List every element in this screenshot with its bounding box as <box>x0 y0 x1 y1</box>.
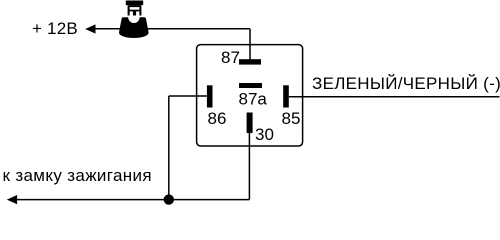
fuse holder bell <box>119 17 149 38</box>
svg-text:85: 85 <box>282 109 301 128</box>
pin 87 bar <box>239 59 261 64</box>
svg-text:86: 86 <box>208 109 227 128</box>
pin 87a bar <box>239 83 262 88</box>
arrow to ignition lock <box>7 195 17 204</box>
wire pin 86 to left corner <box>169 95 207 97</box>
pin 30 bar <box>247 113 253 134</box>
relay box U1 <box>197 45 303 146</box>
wire +12V horizontal <box>94 28 250 30</box>
svg-text:87: 87 <box>221 48 240 67</box>
arrow to +12V <box>85 24 95 33</box>
junction dot <box>164 194 174 204</box>
wire pin 30 down <box>248 133 250 200</box>
svg-text:к замку зажигания: к замку зажигания <box>3 166 152 185</box>
wire pin 85 to right edge <box>289 96 500 98</box>
fuse F1 body <box>128 5 142 15</box>
svg-text:30: 30 <box>255 125 274 144</box>
svg-text:+ 12В: + 12В <box>32 19 78 38</box>
pin 86 bar <box>207 85 213 107</box>
svg-text:87a: 87a <box>239 89 268 108</box>
wire bottom horizontal <box>16 199 250 201</box>
svg-text:ЗЕЛЕНЫЙ/ЧЕРНЫЙ (-): ЗЕЛЕНЫЙ/ЧЕРНЫЙ (-) <box>312 74 500 93</box>
pin 85 bar <box>283 85 289 107</box>
wire left corner down to junction <box>168 96 170 200</box>
wire from top corner down to pin 87 <box>249 29 251 60</box>
fuse F1 top bar <box>126 1 143 6</box>
